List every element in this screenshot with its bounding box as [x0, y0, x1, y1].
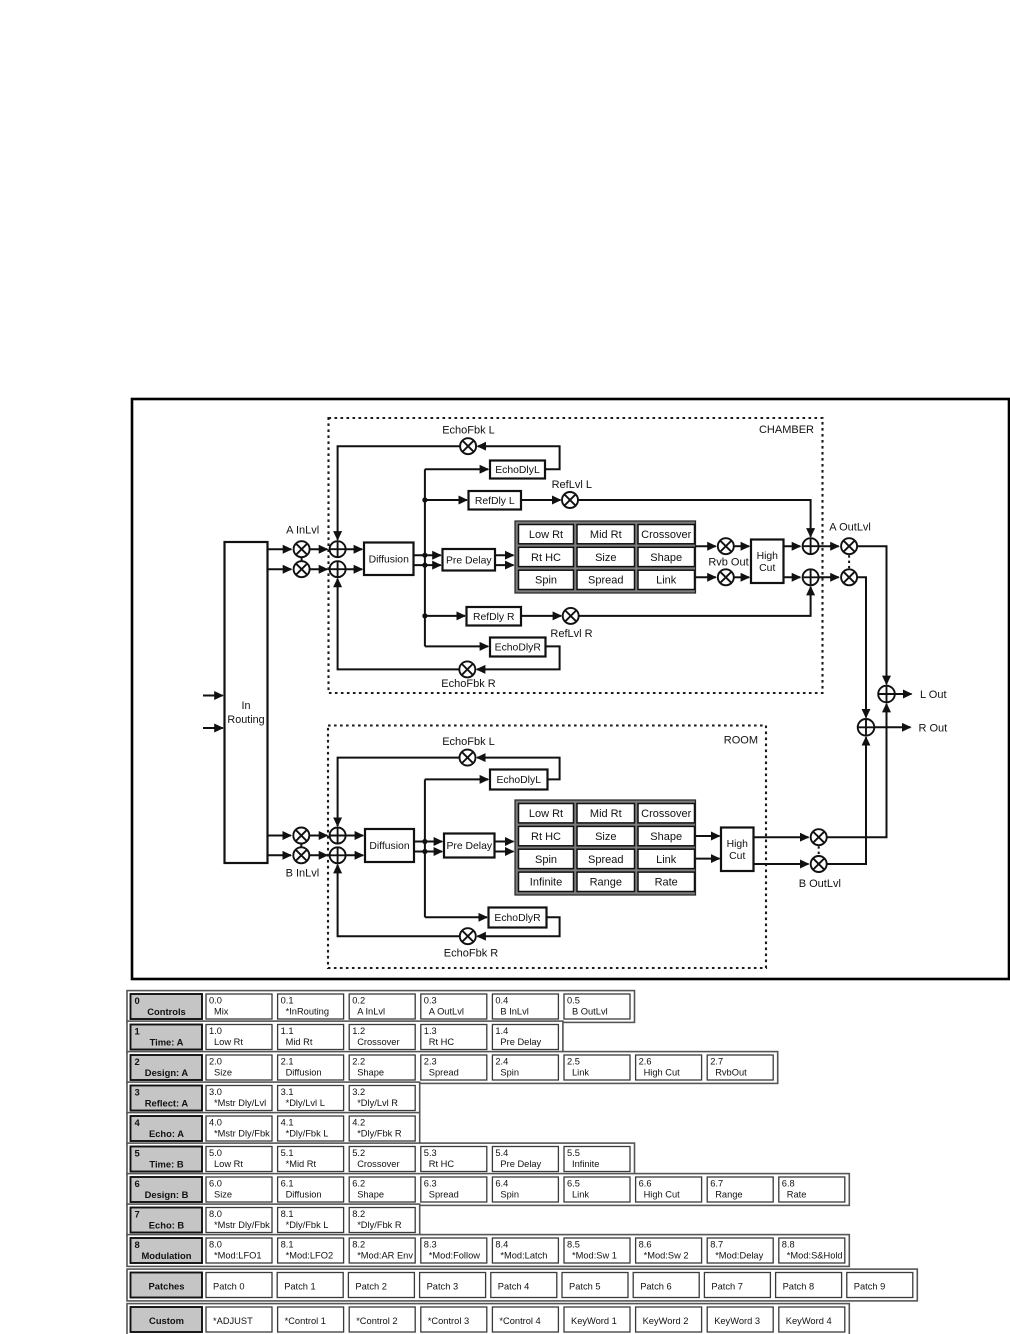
svg-text:Rate: Rate [655, 877, 678, 889]
trunk wire A [424, 469, 426, 646]
wire B OutLvl L to L adder [827, 704, 887, 837]
svg-text:5.0: 5.0 [209, 1148, 222, 1158]
svg-text:0.5: 0.5 [567, 996, 580, 1006]
table row Time: A [127, 1021, 563, 1053]
svg-text:1.1: 1.1 [281, 1026, 294, 1036]
svg-text:Spread: Spread [429, 1068, 459, 1078]
svg-text:Cut: Cut [729, 851, 745, 862]
svg-text:Range: Range [590, 877, 622, 889]
svg-text:Shape: Shape [650, 831, 682, 843]
wire Pre Delay B to matrix R [495, 851, 514, 853]
svg-text:6: 6 [135, 1178, 140, 1189]
svg-text:Mid Rt: Mid Rt [286, 1037, 313, 1047]
svg-text:Diffusion: Diffusion [369, 841, 409, 852]
svg-text:6.5: 6.5 [567, 1179, 580, 1189]
svg-text:Diffusion: Diffusion [369, 555, 409, 566]
svg-text:6.0: 6.0 [209, 1179, 222, 1189]
svg-text:EchoDlyR: EchoDlyR [495, 643, 542, 654]
svg-text:Link: Link [656, 854, 677, 866]
svg-text:Spin: Spin [535, 854, 557, 866]
svg-text:*Mod:Latch: *Mod:Latch [500, 1251, 547, 1261]
multiplier A InLvl R [294, 561, 310, 577]
svg-text:6.3: 6.3 [424, 1179, 437, 1189]
svg-text:High: High [727, 839, 749, 850]
svg-text:Mid Rt: Mid Rt [590, 529, 622, 541]
wire Rvb Out R to High Cut [734, 576, 749, 578]
svg-text:Cut: Cut [759, 563, 775, 574]
svg-text:CHAMBER: CHAMBER [759, 424, 814, 436]
svg-text:EchoDlyR: EchoDlyR [494, 913, 541, 924]
table row Design: A [127, 1052, 778, 1084]
ganged link B OutLvl [818, 846, 820, 855]
wire B mult L to adder [309, 835, 327, 837]
Diffusion box A [364, 543, 414, 576]
multiplier B InLvl R [293, 847, 309, 863]
svg-text:Echo: B: Echo: B [149, 1219, 185, 1230]
adder R Out [858, 719, 875, 736]
table row Reflect: A [127, 1082, 420, 1114]
wire EchoFbk R A to adder bottom [338, 579, 460, 670]
adder chamber out L [803, 538, 819, 554]
svg-text:Spread: Spread [588, 854, 623, 866]
svg-text:*Dly/Fbk L: *Dly/Fbk L [286, 1220, 329, 1230]
wire High Cut B to B OutLvl mult R [754, 863, 809, 865]
svg-text:1: 1 [135, 1025, 140, 1036]
svg-text:EchoFbk L: EchoFbk L [442, 736, 495, 748]
multiplier EchoFbk L A [460, 438, 476, 454]
svg-text:8.0: 8.0 [209, 1240, 222, 1250]
wire A adder R to Diffusion [346, 568, 363, 570]
wire A OutLvl R to R adder [857, 577, 866, 717]
High Cut box A [751, 540, 784, 584]
svg-text:*Control 3: *Control 3 [428, 1316, 469, 1326]
svg-text:EchoFbk L: EchoFbk L [442, 425, 495, 437]
multiplier A OutLvl R [841, 569, 857, 585]
svg-text:Echo: A: Echo: A [149, 1128, 184, 1139]
svg-text:*Mstr Dly/Fbk: *Mstr Dly/Fbk [214, 1129, 270, 1139]
svg-text:5.5: 5.5 [567, 1148, 580, 1158]
svg-text:B OutLvl: B OutLvl [572, 1007, 608, 1017]
svg-text:*Dly/Fbk L: *Dly/Fbk L [286, 1129, 329, 1139]
link A InLvl pair [301, 557, 303, 561]
svg-text:8: 8 [135, 1239, 140, 1250]
ROOM dashed enclosure [328, 726, 766, 969]
svg-text:KeyWord 4: KeyWord 4 [786, 1316, 832, 1326]
junction trunk A at out L [422, 553, 427, 558]
parameter matrix chamber [515, 521, 696, 593]
multiplier A InLvl L [294, 541, 310, 557]
svg-text:Crossover: Crossover [357, 1037, 399, 1047]
multiplier EchoFbk L B [460, 750, 476, 766]
svg-text:6.1: 6.1 [281, 1179, 294, 1189]
RefDly R box [467, 607, 522, 626]
svg-text:*Dly/Fbk R: *Dly/Fbk R [357, 1129, 402, 1139]
svg-text:RvbOut: RvbOut [715, 1068, 747, 1078]
wire RefLvl L to chamber out adder L [578, 500, 811, 537]
EchoDlyR A feedback wire [477, 646, 560, 669]
svg-text:Low Rt: Low Rt [214, 1037, 243, 1047]
svg-text:1.3: 1.3 [424, 1026, 437, 1036]
svg-text:R Out: R Out [919, 722, 948, 734]
svg-text:Link: Link [572, 1068, 589, 1078]
svg-text:Pre Delay: Pre Delay [500, 1159, 541, 1169]
svg-text:A OutLvl: A OutLvl [829, 522, 871, 534]
svg-text:Crossover: Crossover [641, 529, 691, 541]
svg-text:Patch 1: Patch 1 [284, 1281, 316, 1291]
wire High Cut A to out adder L [784, 545, 801, 547]
wire InRouting to A mult L [268, 548, 292, 550]
svg-text:Patch 2: Patch 2 [355, 1281, 387, 1291]
svg-text:*Dly/Fbk R: *Dly/Fbk R [357, 1220, 402, 1230]
svg-text:Rate: Rate [787, 1190, 807, 1200]
svg-text:High Cut: High Cut [644, 1190, 681, 1200]
wire matrix B out L to High Cut [696, 835, 720, 837]
multiplier B OutLvl L [811, 829, 827, 845]
svg-text:Patch 7: Patch 7 [711, 1281, 743, 1291]
svg-text:Mix: Mix [214, 1007, 229, 1017]
svg-text:ROOM: ROOM [724, 735, 758, 747]
svg-text:1.4: 1.4 [495, 1026, 508, 1036]
junction trunk A RefDly L [422, 497, 427, 502]
svg-text:4: 4 [135, 1117, 141, 1128]
wire trunk to EchoDlyL A [425, 468, 488, 470]
table row Modulation [127, 1235, 849, 1267]
wire trunk to RefDly R [425, 615, 465, 617]
Pre Delay box A [443, 549, 496, 571]
svg-text:8.0: 8.0 [209, 1209, 222, 1219]
wire RefLvl R to chamber out adder R [579, 587, 811, 616]
wire out adder L to A OutLvl mult [819, 545, 839, 547]
EchoDlyR box B [489, 908, 547, 928]
svg-text:6.7: 6.7 [710, 1179, 723, 1189]
EchoDlyR box A [490, 638, 546, 657]
svg-text:8.8: 8.8 [782, 1240, 795, 1250]
svg-text:Patch 3: Patch 3 [427, 1281, 459, 1291]
In Routing box U1 [225, 542, 268, 863]
table row Controls [127, 991, 635, 1023]
svg-text:5.2: 5.2 [352, 1148, 365, 1158]
svg-text:5.1: 5.1 [281, 1148, 294, 1158]
svg-text:*Mstr Dly/Lvl: *Mstr Dly/Lvl [214, 1098, 266, 1108]
junction trunk A RefDly R [422, 613, 427, 618]
svg-text:2.1: 2.1 [281, 1057, 294, 1067]
svg-text:Patch 9: Patch 9 [854, 1281, 886, 1291]
svg-text:0.0: 0.0 [209, 996, 222, 1006]
svg-text:A InLvl: A InLvl [357, 1007, 385, 1017]
wire matrix A out L to Rvb Out mult [696, 545, 716, 547]
svg-text:A InLvl: A InLvl [286, 525, 319, 537]
svg-text:Diffusion: Diffusion [286, 1190, 322, 1200]
wire matrix A out R to Rvb Out mult [696, 576, 716, 578]
RefDly L box [469, 491, 522, 510]
svg-text:4.1: 4.1 [281, 1118, 294, 1128]
svg-text:L Out: L Out [920, 689, 947, 701]
svg-text:3.0: 3.0 [209, 1087, 222, 1097]
svg-text:Shape: Shape [357, 1190, 384, 1200]
svg-text:*Control 4: *Control 4 [499, 1316, 540, 1326]
multiplier Rvb Out R [718, 569, 734, 585]
svg-text:Time: B: Time: B [149, 1158, 183, 1169]
wire trunk to EchoDlyL B [425, 778, 488, 780]
svg-text:Diffusion: Diffusion [286, 1068, 322, 1078]
svg-text:8.4: 8.4 [495, 1240, 508, 1250]
table row Design: B [127, 1174, 849, 1206]
svg-text:Design: B: Design: B [145, 1189, 189, 1200]
svg-text:In: In [241, 700, 250, 712]
svg-text:RefLvl R: RefLvl R [550, 628, 592, 640]
svg-text:8.1: 8.1 [281, 1209, 294, 1219]
junction trunk A at out R [422, 563, 427, 568]
svg-text:B InLvl: B InLvl [500, 1007, 528, 1017]
wire Diffusion A out L to Pre Delay [414, 554, 441, 556]
svg-text:Crossover: Crossover [357, 1159, 399, 1169]
Pre Delay box B [444, 834, 495, 858]
wire A mult L to adder [310, 548, 328, 550]
adder A sum L [330, 541, 346, 557]
svg-text:*Dly/Lvl R: *Dly/Lvl R [357, 1098, 398, 1108]
svg-text:8.6: 8.6 [639, 1240, 652, 1250]
table row Echo: A [127, 1113, 420, 1145]
svg-text:8.2: 8.2 [352, 1240, 365, 1250]
trunk wire B [424, 779, 426, 917]
multiplier A OutLvl L [841, 538, 857, 554]
svg-text:8.2: 8.2 [352, 1209, 365, 1219]
svg-text:5: 5 [135, 1147, 140, 1158]
svg-text:Spin: Spin [500, 1190, 519, 1200]
wire InRouting to B mult L [268, 835, 292, 837]
svg-text:Rt HC: Rt HC [429, 1037, 455, 1047]
EchoDlyL box A [490, 461, 545, 479]
svg-text:*Control 1: *Control 1 [285, 1316, 326, 1326]
svg-text:2.3: 2.3 [424, 1057, 437, 1067]
svg-text:RefDly R: RefDly R [473, 612, 515, 623]
diagram outer border [132, 399, 1009, 979]
svg-text:*Mod:LFO1: *Mod:LFO1 [214, 1251, 262, 1261]
wire InRouting to A mult R [268, 568, 292, 570]
svg-text:4.2: 4.2 [352, 1118, 365, 1128]
wire B OutLvl R to R adder [827, 737, 866, 864]
svg-text:KeyWord 1: KeyWord 1 [571, 1316, 617, 1326]
link B InLvl pair [300, 844, 302, 848]
wire Pre Delay A to matrix L [495, 554, 514, 556]
svg-text:6.8: 6.8 [782, 1179, 795, 1189]
svg-text:8.1: 8.1 [281, 1240, 294, 1250]
wire L Out [895, 693, 912, 695]
svg-text:Shape: Shape [357, 1068, 384, 1078]
svg-text:Custom: Custom [149, 1315, 184, 1326]
adder A sum R [330, 561, 346, 577]
ganged link A OutLvl [848, 555, 850, 568]
wire Rvb Out L to High Cut [734, 545, 749, 547]
wire A adder L to Diffusion [346, 548, 363, 550]
multiplier RefLvl L [562, 492, 578, 508]
svg-text:EchoFbk R: EchoFbk R [441, 678, 495, 690]
table row Patches [127, 1269, 917, 1301]
EchoDlyL A feedback wire [478, 446, 560, 469]
wire B mult R to adder [309, 854, 327, 856]
multiplier B InLvl L [293, 828, 309, 844]
wire B adder L to Diffusion [346, 835, 364, 837]
High Cut box B [721, 828, 754, 872]
svg-text:*ADJUST: *ADJUST [213, 1316, 253, 1326]
svg-text:B OutLvl: B OutLvl [799, 878, 841, 890]
svg-text:Low Rt: Low Rt [529, 808, 563, 820]
parameter matrix room [515, 800, 696, 895]
svg-text:Controls: Controls [147, 1006, 186, 1017]
wire Pre Delay B to matrix L [495, 841, 514, 843]
multiplier EchoFbk R A [459, 661, 475, 677]
svg-text:2.2: 2.2 [352, 1057, 365, 1067]
svg-text:*Mod:LFO2: *Mod:LFO2 [286, 1251, 334, 1261]
svg-text:Size: Size [595, 831, 616, 843]
svg-text:8.3: 8.3 [424, 1240, 437, 1250]
svg-text:Pre Delay: Pre Delay [446, 841, 492, 852]
wire R Out [874, 726, 910, 728]
CHAMBER dashed enclosure [329, 418, 823, 693]
svg-text:*Mod:Follow: *Mod:Follow [429, 1251, 480, 1261]
svg-text:Link: Link [656, 575, 677, 587]
svg-text:KeyWord 2: KeyWord 2 [643, 1316, 689, 1326]
svg-text:EchoFbk R: EchoFbk R [444, 948, 498, 960]
wire trunk to EchoDlyR B [425, 916, 487, 918]
svg-text:2.0: 2.0 [209, 1057, 222, 1067]
svg-text:Routing: Routing [227, 714, 264, 726]
svg-text:High Cut: High Cut [644, 1068, 681, 1078]
svg-text:KeyWord 3: KeyWord 3 [714, 1316, 760, 1326]
wire RefDly R to RefLvl mult [521, 615, 561, 617]
Diffusion box B [365, 829, 414, 862]
svg-text:4.0: 4.0 [209, 1118, 222, 1128]
svg-text:Range: Range [715, 1190, 742, 1200]
junction trunk B at out L [422, 839, 427, 844]
svg-text:*Dly/Lvl L: *Dly/Lvl L [286, 1098, 325, 1108]
multiplier Rvb Out L [718, 538, 734, 554]
svg-text:0.4: 0.4 [495, 996, 508, 1006]
svg-text:Patches: Patches [149, 1280, 185, 1291]
svg-text:3.1: 3.1 [281, 1087, 294, 1097]
svg-text:3: 3 [135, 1086, 140, 1097]
svg-text:RefLvl L: RefLvl L [552, 479, 592, 491]
wire out adder R to A OutLvl mult [819, 576, 839, 578]
wire High Cut B to B OutLvl mult L [754, 836, 809, 838]
svg-text:8.7: 8.7 [710, 1240, 723, 1250]
svg-text:Spin: Spin [500, 1068, 519, 1078]
wire A mult R to adder [310, 568, 328, 570]
wire EchoFbk L B to adder top [338, 758, 460, 826]
wire trunk to EchoDlyR A [425, 645, 488, 647]
svg-text:A OutLvl: A OutLvl [429, 1007, 464, 1017]
svg-text:1.2: 1.2 [352, 1026, 365, 1036]
wire A OutLvl L to L adder [857, 546, 886, 684]
svg-text:5.4: 5.4 [495, 1148, 508, 1158]
svg-text:6.2: 6.2 [352, 1179, 365, 1189]
svg-text:8.5: 8.5 [567, 1240, 580, 1250]
svg-text:Rt HC: Rt HC [531, 831, 561, 843]
svg-text:*Mid Rt: *Mid Rt [286, 1159, 317, 1169]
svg-text:Shape: Shape [650, 552, 682, 564]
wire InRouting to B mult R [268, 854, 292, 856]
wire RefDly L to RefLvl mult [521, 499, 561, 501]
adder L Out [878, 686, 895, 703]
svg-text:High: High [757, 551, 779, 562]
svg-text:*InRouting: *InRouting [286, 1007, 329, 1017]
svg-text:Size: Size [214, 1190, 232, 1200]
svg-text:Rvb Out: Rvb Out [708, 557, 748, 569]
table row Custom [127, 1304, 849, 1334]
svg-text:RefDly L: RefDly L [475, 496, 515, 507]
svg-text:Spread: Spread [429, 1190, 459, 1200]
wire High Cut A to out adder R [784, 576, 801, 578]
svg-text:Pre Delay: Pre Delay [500, 1037, 541, 1047]
wire trunk to RefDly L [425, 499, 467, 501]
svg-text:*Control 2: *Control 2 [356, 1316, 397, 1326]
svg-text:Time: A: Time: A [150, 1036, 184, 1047]
svg-text:Design: A: Design: A [145, 1067, 189, 1078]
wire Diffusion B out L to Pre Delay [414, 841, 442, 843]
svg-text:*Mod:AR Env: *Mod:AR Env [357, 1251, 413, 1261]
adder B sum R [330, 847, 346, 863]
wire B adder R to Diffusion [346, 854, 364, 856]
wire Pre Delay A to matrix R [495, 564, 514, 566]
junction trunk B at out R [422, 849, 427, 854]
svg-text:Rt HC: Rt HC [429, 1159, 455, 1169]
svg-text:Patch 6: Patch 6 [640, 1281, 672, 1291]
svg-text:Mid Rt: Mid Rt [590, 808, 622, 820]
svg-text:2.5: 2.5 [567, 1057, 580, 1067]
svg-text:2.6: 2.6 [639, 1057, 652, 1067]
svg-text:*Mstr Dly/Fbk: *Mstr Dly/Fbk [214, 1220, 270, 1230]
wire EchoFbk L A to adder top [338, 446, 461, 540]
svg-text:0.2: 0.2 [352, 996, 365, 1006]
svg-text:*Mod:Delay: *Mod:Delay [715, 1251, 763, 1261]
svg-text:B InLvl: B InLvl [286, 868, 320, 880]
svg-text:Patch 0: Patch 0 [213, 1281, 245, 1291]
wire Diffusion B out R to Pre Delay [414, 851, 442, 853]
wire matrix B out R to High Cut [696, 858, 720, 860]
svg-text:Pre Delay: Pre Delay [446, 556, 492, 567]
svg-text:2.7: 2.7 [710, 1057, 723, 1067]
svg-text:6.6: 6.6 [639, 1179, 652, 1189]
svg-text:Low Rt: Low Rt [214, 1159, 243, 1169]
svg-text:EchoDlyL: EchoDlyL [497, 775, 542, 786]
multiplier B OutLvl R [811, 856, 827, 872]
svg-text:0.3: 0.3 [424, 996, 437, 1006]
svg-text:2: 2 [135, 1056, 140, 1067]
table row Time: B [127, 1143, 635, 1175]
svg-text:1.0: 1.0 [209, 1026, 222, 1036]
svg-text:2.4: 2.4 [495, 1057, 508, 1067]
EchoDlyL box B [490, 770, 548, 790]
svg-text:Link: Link [572, 1190, 589, 1200]
multiplier RefLvl R [563, 608, 579, 624]
wire EchoFbk R B to adder bottom [338, 865, 460, 936]
svg-text:Spin: Spin [535, 575, 557, 587]
svg-text:EchoDlyL: EchoDlyL [495, 465, 540, 476]
svg-text:5.3: 5.3 [424, 1148, 437, 1158]
svg-text:Spread: Spread [588, 575, 623, 587]
EchoDlyL B feedback wire [477, 758, 560, 780]
svg-text:*Mod:Sw 1: *Mod:Sw 1 [572, 1251, 617, 1261]
svg-text:Reflect: A: Reflect: A [145, 1097, 189, 1108]
adder B sum L [330, 828, 346, 844]
svg-text:Rt HC: Rt HC [531, 552, 561, 564]
svg-text:Infinite: Infinite [572, 1159, 599, 1169]
left input wire R [203, 727, 223, 729]
svg-text:Infinite: Infinite [530, 877, 562, 889]
svg-text:0.1: 0.1 [281, 996, 294, 1006]
EchoDlyR B feedback wire [477, 917, 559, 936]
svg-text:Low Rt: Low Rt [529, 529, 563, 541]
